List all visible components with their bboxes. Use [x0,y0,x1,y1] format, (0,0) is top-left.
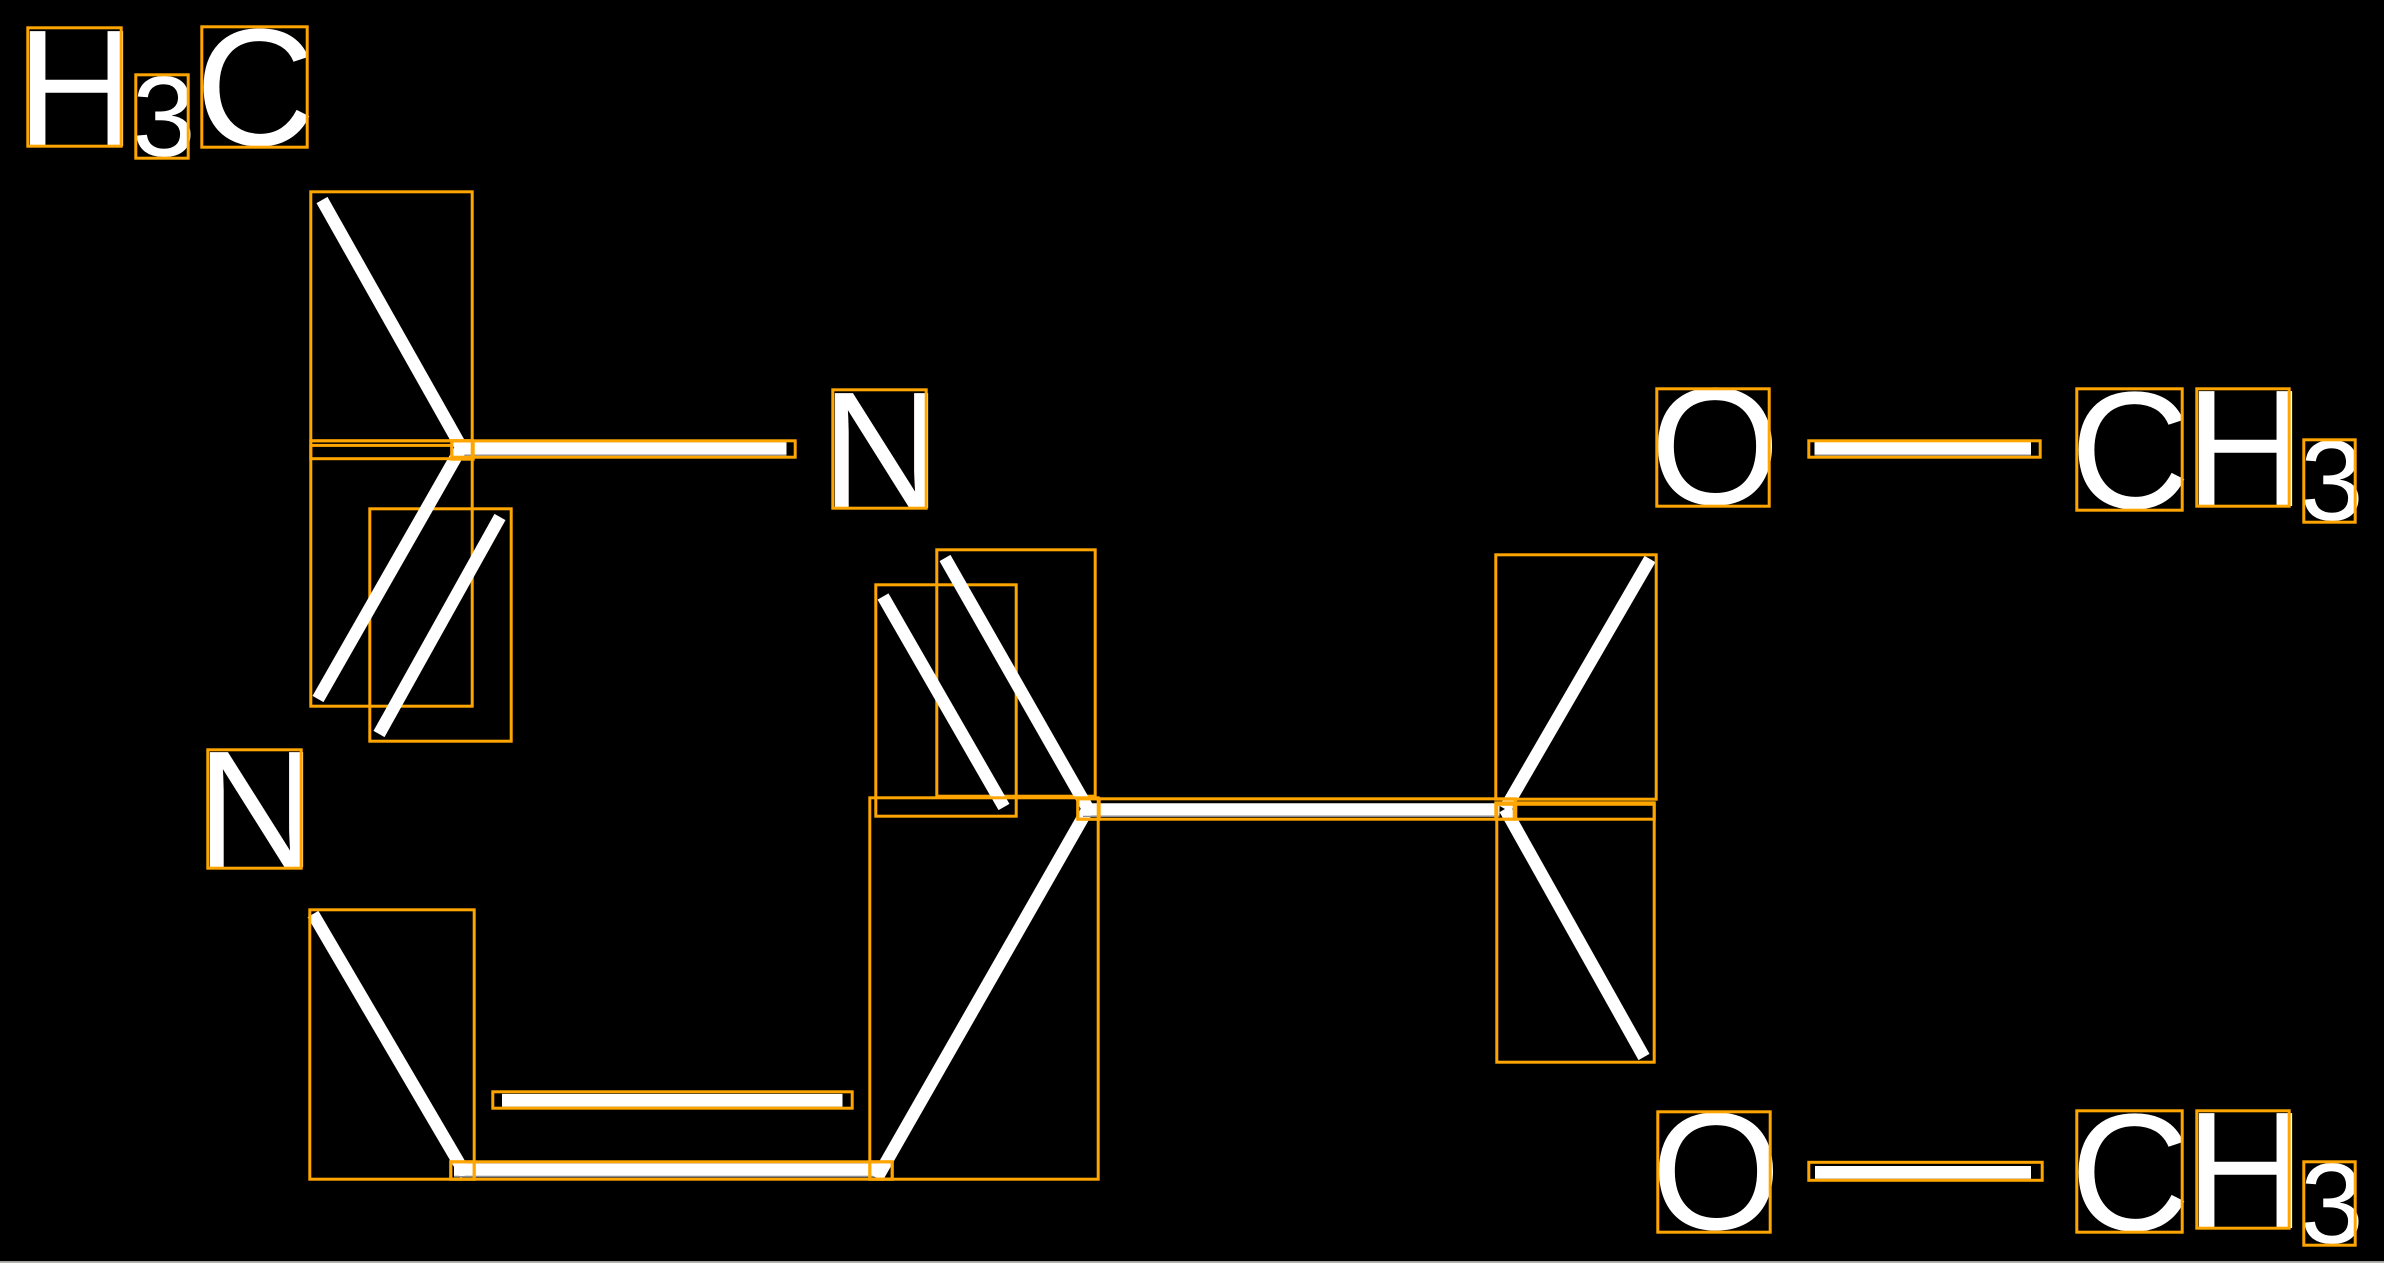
box around H bottom glyph [2197,1111,2289,1228]
box around C bottom glyph [2077,1111,2182,1232]
box around bond CH-O top [1496,555,1656,799]
wire bond C5-C6 diagonal [877,809,1088,1178]
box around bond C4=C5 inner [493,1092,852,1108]
wire bond C4=C5 outer line (bottom) [454,1163,884,1176]
box around C glyph [202,27,307,147]
box around bond N3-C4 [310,910,474,1179]
svg-text:N: N [821,358,942,544]
box around subscript 3 glyph [136,75,188,158]
box around N3 glyph [208,750,301,868]
box around 3 top glyph [2304,440,2355,522]
svg-text:O: O [1650,354,1780,540]
wire bond C6=N1 inner line [883,597,1004,808]
small box at vertex C6 [1078,799,1099,819]
thin box at vertex CH [1516,803,1654,819]
wire bond C2-N1 (horizontal to right N) [456,442,787,455]
bottom edge gray strip [0,1261,2384,1263]
wire bond CH3-C2 (methyl to ring) [322,200,462,448]
wire bond O-CH3 bottom horizontal [1815,1166,2031,1179]
wire bond C6=N1 outer line [945,558,1088,809]
small box at vertex C2 [452,441,473,459]
svg-text:O: O [1651,1079,1781,1263]
box around H glyph [28,28,121,146]
wire bond N3-C4 [313,914,466,1175]
box around bond C4=C5 outer [451,1162,892,1179]
box around 3 bottom glyph [2304,1162,2355,1245]
box around bond C2=N3 outer [311,445,472,706]
box around C top glyph [2077,389,2182,510]
small box at vertex C4 [451,1162,474,1179]
box around bond C2-N1 [452,441,795,457]
box around bond C6=N1 outer [937,550,1095,796]
svg-text:H: H [2185,356,2306,542]
small box at vertex CH [1496,803,1514,819]
wire bond C4=C5 inner line [502,1094,843,1107]
box around bond O-CH3 top [1809,441,2040,457]
svg-text:C: C [2070,1080,2191,1263]
box around H top glyph [2197,389,2289,506]
wire bond O-CH3 top horizontal [1815,442,2032,455]
wire bond CH-O bottom diagonal [1505,809,1644,1057]
box around bond CH3-C2 [311,192,472,441]
box around O top glyph [1657,389,1769,506]
svg-text:3: 3 [132,54,195,181]
wire bond CH-O top diagonal [1505,559,1650,809]
box around bond C5-C6 [870,798,1098,1179]
svg-text:C: C [2070,358,2191,544]
box around bond O-CH3 bottom [1809,1162,2042,1180]
thin box at vertex C2 [311,441,472,459]
box around bond C6-CH [1078,799,1515,819]
box around O bottom glyph [1658,1112,1770,1232]
wire bond C2=N3 inner line [379,517,500,734]
box around bond CH-O bottom [1497,804,1654,1062]
wire bond C2=N3 outer line (double bond to left N) [318,447,462,699]
box around N1 glyph [833,390,926,508]
wire bond C6-CH acetal (long horizontal) [1083,803,1500,816]
svg-text:N: N [196,717,317,903]
box around bond C2=N3 inner [370,509,511,741]
svg-text:H: H [2185,1078,2306,1263]
small box at vertex C5 [870,1162,892,1179]
box around bond C6=N1 inner [876,585,1016,816]
